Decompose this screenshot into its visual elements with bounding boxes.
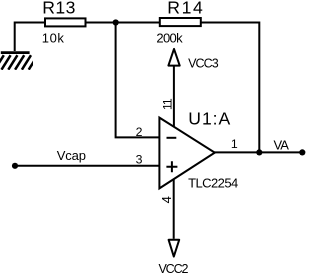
svg-text:VA: VA <box>274 138 290 153</box>
svg-text:VCC3: VCC3 <box>188 56 219 70</box>
wire pin 4 <box>173 179 175 239</box>
svg-text:U1:A: U1:A <box>188 109 231 129</box>
ground <box>0 53 38 70</box>
svg-text:11: 11 <box>160 98 174 110</box>
wire R14 to output node <box>201 22 259 153</box>
wire Vcap to pin 3 <box>15 165 159 167</box>
svg-text:200k: 200k <box>156 30 183 45</box>
svg-text:TLC2254: TLC2254 <box>188 176 238 191</box>
resistor R14 <box>160 18 201 26</box>
wire output pin 1 to VA <box>214 151 302 153</box>
svg-text:VCC2: VCC2 <box>159 262 189 275</box>
op-amp U1:A <box>159 118 214 189</box>
svg-text:3: 3 <box>136 152 143 166</box>
power VCC3 arrow <box>168 49 179 66</box>
svg-text:2: 2 <box>136 125 143 139</box>
wire pin 11 <box>173 66 175 127</box>
power VCC2 arrow <box>169 240 180 257</box>
wire feedback to pin 2 <box>115 23 159 138</box>
resistor R13 <box>45 18 86 26</box>
svg-text:1: 1 <box>231 137 238 151</box>
junction node output <box>256 149 262 155</box>
wire R13 to R14 <box>86 22 160 24</box>
wire ground to R13 <box>15 22 45 52</box>
svg-text:4: 4 <box>159 196 174 203</box>
svg-text:Vcap: Vcap <box>57 148 86 163</box>
junction node <box>113 19 119 25</box>
svg-text:10k: 10k <box>42 30 65 45</box>
svg-text:R13: R13 <box>42 0 75 18</box>
node Vcap terminal <box>12 163 18 169</box>
svg-text:R14: R14 <box>167 0 204 18</box>
node VA terminal <box>299 149 305 155</box>
